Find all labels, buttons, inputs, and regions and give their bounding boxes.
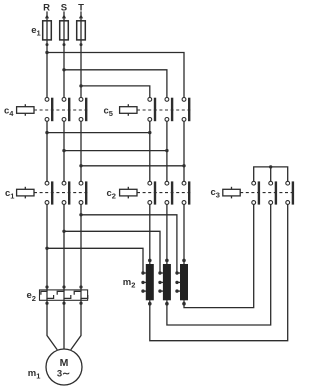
wire C4-2 bottom to C1-2 top xyxy=(63,121,65,181)
wire link phase 1 xyxy=(47,132,150,134)
wire C2-2 bottom to m2 winding 2 xyxy=(166,204,168,264)
contact C2-2 xyxy=(165,181,172,204)
svg-text:M: M xyxy=(60,357,69,369)
wire link phase 2 xyxy=(64,150,167,152)
contact C5-2 xyxy=(165,98,172,122)
contact C3-3 xyxy=(286,181,293,204)
fuse e1 phase R xyxy=(43,21,52,40)
node R branch junction xyxy=(45,51,48,54)
wire e2 to motor U xyxy=(47,298,57,349)
wire C4-3 bottom to C1-3 top xyxy=(80,121,82,181)
contact C4-2 xyxy=(62,98,69,122)
supply arrow T xyxy=(79,14,83,18)
node motor line 2 tap junction xyxy=(62,230,65,233)
wire motor line 1 to m2 tap 1 xyxy=(47,248,143,273)
node S branch junction xyxy=(62,68,65,71)
node star bridge junction xyxy=(269,165,272,168)
wire C1-2 bottom to overload e2 xyxy=(63,204,65,291)
star bridge of C3 xyxy=(254,167,288,181)
contact C1-1 xyxy=(45,181,52,204)
wire R branch to C5 contact 3 xyxy=(47,53,184,98)
contactor coil C4 xyxy=(17,104,34,116)
node link2 right junction xyxy=(165,149,168,152)
wire C5-1 bottom to C2-1 top xyxy=(149,121,151,181)
supply arrow S xyxy=(62,14,66,18)
transformer winding m2-3 xyxy=(175,264,188,306)
actuation dashed link C1 xyxy=(34,192,88,194)
motor m1 xyxy=(46,349,82,385)
actuation dashed link C4 xyxy=(34,109,88,111)
node e2 output 1 xyxy=(45,302,48,305)
fuse e1 phase S xyxy=(60,21,69,40)
wire motor line 2 to m2 tap 2 xyxy=(64,231,160,273)
heater element e2-2 xyxy=(57,291,71,298)
wire m2-3 bottom to C3 contact 1 xyxy=(184,204,254,307)
wire e2 to motor W xyxy=(71,298,81,349)
node m2 winding 1 top xyxy=(148,259,152,263)
wire C2-3 bottom to m2 winding 3 xyxy=(183,204,185,264)
contact C1-2 xyxy=(62,181,69,204)
contactor coil C3 xyxy=(223,187,240,199)
node link3 right junction xyxy=(182,164,185,167)
contact C3-1 xyxy=(252,181,259,204)
fuse e1 phase T xyxy=(77,21,86,40)
terminal dot below fuse T xyxy=(80,43,83,46)
node m2 winding 2 top xyxy=(165,259,169,263)
wire e2 to motor V xyxy=(63,298,65,349)
contact C5-1 xyxy=(148,98,155,122)
node e2 input 3 xyxy=(79,285,82,288)
node motor line 1 tap junction xyxy=(45,247,48,250)
svg-text:3∼: 3∼ xyxy=(57,369,70,380)
wire link phase 3 xyxy=(81,165,184,167)
node e2 input 1 xyxy=(45,285,48,288)
node link2 left junction xyxy=(62,149,65,152)
contact C1-3 xyxy=(79,181,86,204)
wire C5-3 bottom to C2-3 top xyxy=(183,121,185,181)
terminal dot below fuse S xyxy=(63,43,66,46)
wire motor line 3 to m2 tap 3 xyxy=(81,215,177,273)
contact C4-3 xyxy=(79,98,86,122)
node T branch junction xyxy=(79,84,82,87)
supply arrow R xyxy=(45,14,49,18)
supply lead T xyxy=(80,11,82,97)
contact C2-1 xyxy=(148,181,155,204)
heater element e2-3 xyxy=(74,291,88,298)
supply lead R xyxy=(46,11,48,97)
contactor coil C2 xyxy=(120,187,137,199)
wire C5-2 bottom to C2-2 top xyxy=(166,121,168,181)
node motor line 3 tap junction xyxy=(79,213,82,216)
wire C2-1 bottom to m2 winding 1 xyxy=(149,204,151,264)
contactor coil C5 xyxy=(120,104,137,116)
star bridge centre stem xyxy=(270,167,272,181)
node m2 winding 3 top xyxy=(182,259,186,263)
actuation dashed link C3 xyxy=(240,192,293,194)
node e2 output 3 xyxy=(79,302,82,305)
contact C5-3 xyxy=(182,98,189,122)
node link1 right junction xyxy=(148,131,151,134)
contact C3-2 xyxy=(269,181,276,204)
wire T branch to C5 contact 1 xyxy=(81,86,150,98)
contact C4-1 xyxy=(45,98,52,122)
supply lead S xyxy=(63,11,65,97)
wire S branch to C5 contact 2 xyxy=(64,70,167,98)
terminal dot below fuse R xyxy=(46,43,49,46)
overload relay e2 box xyxy=(40,290,88,300)
contactor coil C1 xyxy=(17,187,34,199)
heater element e2-1 xyxy=(41,291,54,298)
node link1 left junction xyxy=(45,131,48,134)
node e2 input 2 xyxy=(62,285,65,288)
wire m2-2 bottom to C3 contact 2 xyxy=(167,204,271,325)
transformer winding m2-2 xyxy=(158,264,171,306)
wire m2-1 bottom to C3 contact 3 xyxy=(150,204,288,340)
node link3 left junction xyxy=(79,164,82,167)
wire C4-1 bottom to C1-1 top xyxy=(46,121,48,181)
wire C1-1 bottom to overload e2 xyxy=(46,204,48,291)
wire C1-3 bottom to overload e2 xyxy=(80,204,82,291)
actuation dashed link C2 xyxy=(137,192,190,194)
contact C2-3 xyxy=(182,181,189,204)
node e2 output 2 xyxy=(62,302,65,305)
transformer winding m2-1 xyxy=(141,264,154,306)
actuation dashed link C5 xyxy=(137,109,190,111)
